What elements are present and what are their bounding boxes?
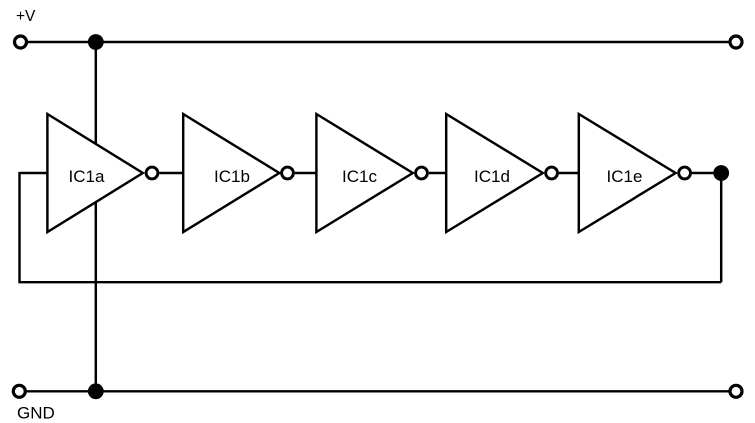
wire IC1a output to IC1b input xyxy=(159,172,184,174)
inverter IC1d xyxy=(446,114,557,232)
svg-text:IC1e: IC1e xyxy=(607,167,643,186)
wire GND bottom rail xyxy=(27,390,730,392)
svg-text:GND: GND xyxy=(17,404,55,423)
wire IC1e output to node xyxy=(692,172,721,174)
junction top rail xyxy=(88,34,104,50)
terminal top right xyxy=(730,36,742,48)
svg-text:IC1a: IC1a xyxy=(69,167,105,186)
wire IC1d output to IC1e input xyxy=(559,172,580,174)
wire feedback right vertical xyxy=(720,173,722,282)
node feedback output xyxy=(713,165,729,181)
terminal GND xyxy=(13,385,25,397)
junction bottom rail xyxy=(88,383,104,399)
wire +V top rail xyxy=(27,41,730,43)
wire IC1b output to IC1c input xyxy=(295,172,318,174)
wire feedback left vertical xyxy=(18,172,20,283)
terminal +V xyxy=(15,36,27,48)
svg-text:+V: +V xyxy=(16,8,36,25)
terminal bottom right xyxy=(730,385,742,397)
svg-text:IC1c: IC1c xyxy=(342,167,377,186)
wire +V vertical drop xyxy=(95,42,97,391)
svg-text:IC1b: IC1b xyxy=(214,167,250,186)
svg-text:IC1d: IC1d xyxy=(474,167,510,186)
inverter IC1c xyxy=(316,114,427,232)
inverter IC1a xyxy=(47,114,158,232)
inverter IC1b xyxy=(183,114,293,232)
wire feedback bottom horizontal xyxy=(20,281,722,283)
wire IC1c output to IC1d input xyxy=(429,172,447,174)
wire IC1a input xyxy=(20,172,47,174)
inverter IC1e xyxy=(579,114,691,232)
